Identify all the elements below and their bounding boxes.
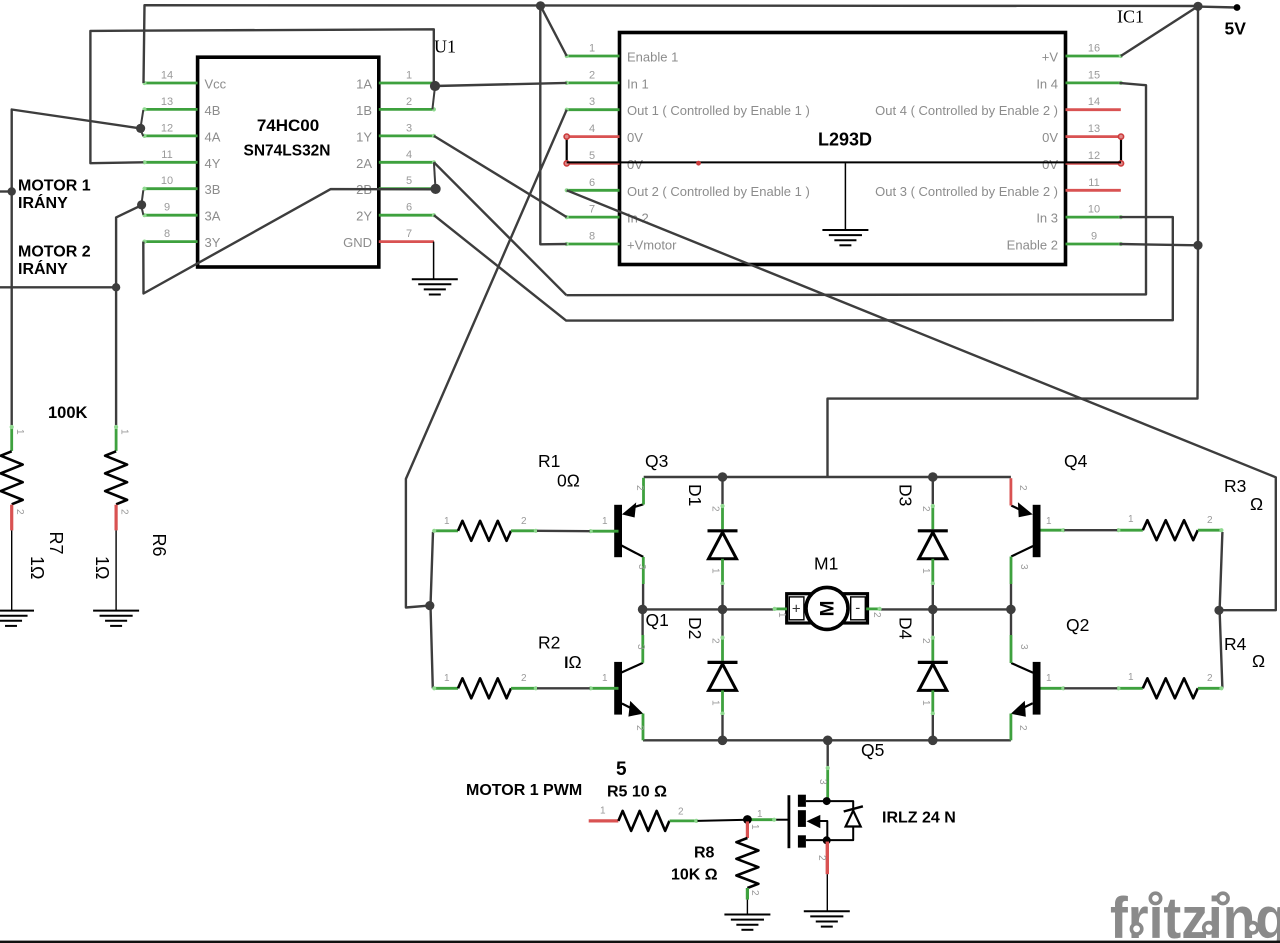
- svg-text:5: 5: [406, 175, 412, 187]
- node Q1/Q3 collector junction: [638, 605, 648, 615]
- wire In 4 run: [566, 83, 1146, 295]
- svg-text:9: 9: [164, 202, 170, 214]
- wire 4B to node: [141, 110, 144, 126]
- svg-text:1: 1: [757, 809, 763, 820]
- wire 2A to In 4 diagonal: [434, 162, 567, 295]
- IC1 pin 5 (0V): [567, 162, 620, 165]
- wire 3B to node: [142, 190, 144, 202]
- node R1/R2 junction: [425, 601, 434, 610]
- wire R5 to gate node: [698, 820, 749, 821]
- Q3 emitter lead: [642, 478, 645, 505]
- wire H-bridge left mid rail: [643, 608, 774, 610]
- Q5 drain lead: [826, 766, 829, 798]
- svg-text:14: 14: [161, 70, 173, 82]
- svg-text:4B: 4B: [205, 103, 221, 118]
- svg-text:Ω: Ω: [1252, 651, 1265, 671]
- svg-text:2: 2: [634, 725, 645, 731]
- wire Out 2 to H-bridge right bases: [567, 190, 1276, 610]
- ground R8: [724, 914, 770, 916]
- node MOTOR2 junction: [112, 283, 120, 291]
- svg-text:2: 2: [871, 612, 882, 618]
- Q5 gate wire: [775, 819, 788, 821]
- svg-text:11: 11: [161, 149, 172, 161]
- svg-text:In 4: In 4: [1036, 76, 1058, 91]
- svg-text:2: 2: [406, 96, 412, 108]
- svg-text:Out 3 ( Controlled by Enable 2: Out 3 ( Controlled by Enable 2 ): [875, 184, 1058, 199]
- svg-text:0V: 0V: [1042, 130, 1058, 145]
- svg-text:6: 6: [589, 177, 595, 189]
- IC1 pin 11 (Out 3 ( Controlled by Enable 2 )): [1066, 189, 1121, 192]
- M1 pin1 lead: [773, 608, 787, 611]
- wire Enable 2 to 5V drop: [1119, 244, 1198, 245]
- svg-text:0V: 0V: [1042, 157, 1058, 172]
- wire R1/R2 base tie: [431, 532, 434, 688]
- wire 1A to dot: [434, 83, 435, 86]
- svg-text:MOTOR 1: MOTOR 1: [18, 178, 91, 195]
- wire +Vmotor to 5V: [540, 6, 566, 245]
- svg-text:Ω: Ω: [569, 652, 582, 672]
- svg-text:4A: 4A: [205, 129, 221, 144]
- transistor Q4 (PNP): [1033, 505, 1041, 557]
- wire 1Y to In 2: [434, 136, 567, 217]
- svg-text:M1: M1: [814, 554, 838, 574]
- diode D3: [932, 477, 934, 505]
- svg-text:1: 1: [710, 568, 721, 574]
- svg-text:R3: R3: [1224, 476, 1246, 496]
- svg-text:1A: 1A: [356, 77, 372, 92]
- svg-text:GND: GND: [343, 235, 372, 250]
- R2 value: [565, 657, 567, 669]
- resistor R6: [115, 425, 118, 451]
- Q5 source lead red: [826, 842, 829, 875]
- svg-text:1: 1: [600, 806, 606, 817]
- svg-text:1Y: 1Y: [356, 129, 372, 144]
- node D2 mid junction: [718, 605, 728, 615]
- svg-text:0V: 0V: [627, 130, 643, 145]
- wire bottom rail to Q5 drain: [827, 740, 829, 766]
- svg-text:0Ω: 0Ω: [557, 471, 580, 491]
- wire R1 to Q3 base: [537, 530, 590, 533]
- node 5V endpoint: [1234, 4, 1241, 11]
- svg-text:Q1: Q1: [646, 610, 669, 630]
- svg-text:8: 8: [589, 231, 595, 243]
- Q1 emitter lead: [642, 714, 645, 741]
- svg-text:3: 3: [406, 122, 412, 134]
- svg-text:MOTOR 1 PWM: MOTOR 1 PWM: [466, 782, 582, 799]
- svg-text:M: M: [818, 600, 839, 616]
- svg-text:12: 12: [1088, 150, 1100, 162]
- wire Q2 base to R4: [1064, 687, 1117, 689]
- node 1A junction: [430, 81, 440, 91]
- wire 5V right drop to Enable2 and H-bridge supply: [828, 6, 1199, 477]
- svg-text:13: 13: [1088, 123, 1100, 135]
- svg-text:2: 2: [1017, 725, 1028, 731]
- wire 5V top rail (Vcc U1 to 5V node): [144, 5, 1199, 83]
- IC1 pin 9 (Enable 2): [1066, 243, 1121, 246]
- U1 pin 11 (4Y): [143, 161, 197, 164]
- ground U1 GND: [433, 242, 435, 279]
- IC1 pin 4 (0V): [567, 135, 620, 138]
- svg-text:5: 5: [616, 759, 627, 780]
- svg-text:IRLZ 24 N: IRLZ 24 N: [882, 810, 956, 827]
- Q1 collector lead: [641, 635, 644, 663]
- IC1 pin 10 (In 3): [1066, 216, 1121, 219]
- svg-text:2: 2: [521, 673, 527, 684]
- svg-text:10K Ω: 10K Ω: [671, 867, 718, 884]
- wire MOTOR 2 IRANY stub: [0, 286, 116, 288]
- svg-text:3: 3: [817, 779, 828, 785]
- svg-text:Out 1 ( Controlled by Enable 1: Out 1 ( Controlled by Enable 1 ): [627, 103, 810, 118]
- U1 pin 4 (2A): [379, 161, 434, 164]
- svg-text:1: 1: [119, 429, 130, 435]
- svg-text:1: 1: [14, 429, 25, 435]
- svg-text:IRÁNY: IRÁNY: [18, 193, 68, 212]
- diode D4: [932, 609, 934, 636]
- svg-text:15: 15: [1088, 69, 1100, 81]
- svg-text:1: 1: [444, 516, 450, 527]
- svg-text:R2: R2: [538, 633, 560, 653]
- wire 0V rail across IC1 (pin5 to pin12): [567, 161, 1121, 163]
- svg-text:IRÁNY: IRÁNY: [18, 259, 68, 278]
- svg-text:Out 2 ( Controlled by Enable 1: Out 2 ( Controlled by Enable 1 ): [627, 184, 810, 199]
- IC1 pin 7 (In 2): [567, 216, 620, 219]
- wire R2 to Q1 base: [537, 687, 590, 689]
- svg-text:2: 2: [589, 69, 595, 81]
- svg-text:L293D: L293D: [818, 130, 872, 150]
- svg-text:2: 2: [920, 506, 931, 512]
- Q5 gate lead: [748, 818, 775, 821]
- wire 2Y to In 3 diagonal and run: [434, 215, 1173, 320]
- wire R3/R4 base tie: [1220, 532, 1223, 688]
- U1 pin 5 (2B): [379, 187, 434, 190]
- resistor R5: [589, 819, 619, 822]
- Q4 emitter lead red: [1010, 478, 1013, 505]
- svg-text:Q2: Q2: [1066, 615, 1089, 635]
- wire H-bridge right mid rail: [881, 608, 1011, 610]
- resistor R2: [433, 687, 458, 690]
- resistor R7: [10, 425, 13, 451]
- IC1 pin 6 (Out 2 ( Controlled by Enable 1 )): [567, 189, 620, 192]
- svg-text:R7: R7: [46, 532, 66, 555]
- IC1 pin 12 (0V): [1066, 162, 1121, 165]
- svg-text:2: 2: [1207, 515, 1213, 526]
- Q3 collector lead: [642, 557, 645, 584]
- wire 1B to dot: [432, 87, 435, 110]
- wire 4A to node: [141, 131, 144, 137]
- svg-text:4: 4: [589, 123, 595, 135]
- node D2 bottom junction: [718, 736, 728, 746]
- svg-text:Out 4 ( Controlled by Enable 2: Out 4 ( Controlled by Enable 2 ): [875, 103, 1058, 118]
- wire 2A to 2B node: [434, 162, 436, 187]
- svg-text:2: 2: [521, 516, 527, 527]
- svg-text:In 3: In 3: [1036, 211, 1058, 226]
- ground below IC1: [844, 163, 846, 230]
- svg-text:2: 2: [920, 638, 931, 644]
- svg-text:1: 1: [749, 824, 760, 830]
- svg-text:1: 1: [1046, 673, 1052, 684]
- svg-text:MOTOR 2: MOTOR 2: [18, 244, 91, 261]
- node Enable2 junction: [1193, 241, 1202, 250]
- node R5/R8/gate junction: [743, 815, 752, 824]
- IC1 pin 8 (+Vmotor): [567, 243, 620, 246]
- svg-text:+V: +V: [1042, 50, 1059, 65]
- svg-text:Enable 2: Enable 2: [1007, 238, 1058, 253]
- U1 pin 3 (1Y): [379, 134, 434, 137]
- svg-text:3: 3: [1018, 564, 1029, 570]
- svg-text:2A: 2A: [356, 156, 372, 171]
- node 2B junction: [431, 184, 441, 194]
- svg-text:D2: D2: [685, 617, 705, 639]
- wire R7 to ground: [11, 530, 13, 610]
- svg-text:6: 6: [406, 202, 412, 214]
- IC U1 74HC00 body: [198, 57, 379, 267]
- IC1 pin 14 (Out 4 ( Controlled by Enable 2 )): [1066, 108, 1121, 111]
- svg-text:2: 2: [1207, 673, 1213, 684]
- svg-text:13: 13: [161, 96, 173, 108]
- svg-text:Q5: Q5: [861, 740, 884, 760]
- svg-text:2: 2: [119, 509, 130, 515]
- svg-text:2Y: 2Y: [356, 209, 372, 224]
- svg-text:D1: D1: [685, 484, 705, 506]
- svg-text:1: 1: [1128, 672, 1134, 683]
- resistor R3: [1117, 529, 1143, 532]
- wire 1A node to In 1: [435, 83, 567, 86]
- svg-text:1: 1: [710, 700, 721, 706]
- svg-text:1: 1: [776, 612, 787, 618]
- wire Out 1 to H-bridge left bases: [406, 110, 567, 608]
- resistor R4: [1117, 687, 1143, 690]
- svg-text:4Y: 4Y: [205, 156, 221, 171]
- U1 pin 2 (1B): [379, 108, 434, 111]
- U1 pin 8 (3Y): [143, 240, 197, 243]
- Q2 collector lead: [1010, 635, 1013, 663]
- wire R8 to ground: [746, 900, 748, 915]
- svg-text:1Ω: 1Ω: [92, 556, 112, 579]
- node R3/R4 junction: [1214, 606, 1223, 615]
- svg-text:10: 10: [1088, 204, 1100, 216]
- svg-text:16: 16: [1088, 43, 1100, 55]
- svg-text:10: 10: [161, 175, 173, 187]
- svg-text:In 1: In 1: [627, 76, 649, 91]
- svg-text:SN74LS32N: SN74LS32N: [243, 143, 330, 160]
- Q2 collector wire: [1010, 609, 1012, 635]
- wire MOTOR1 vertical to 4A/4B: [12, 110, 141, 426]
- svg-text:2: 2: [710, 638, 721, 644]
- svg-text:Q4: Q4: [1064, 451, 1088, 471]
- wire R6 to ground: [115, 530, 117, 610]
- svg-text:3: 3: [635, 644, 646, 650]
- IC1 pin 13 (0V): [1066, 135, 1121, 138]
- wire MOTOR 1 IRANY stub: [0, 190, 12, 192]
- diode D1: [721, 477, 723, 505]
- node 3A/3B junction: [137, 200, 146, 209]
- svg-text:100K: 100K: [48, 404, 88, 422]
- node 4A/4B junction: [136, 124, 145, 133]
- svg-text:2: 2: [1017, 485, 1028, 491]
- svg-text:1Ω: 1Ω: [27, 556, 47, 579]
- svg-text:2: 2: [816, 855, 827, 861]
- Q4 collector lead: [1010, 557, 1013, 585]
- node D4 mid junction: [928, 605, 938, 615]
- svg-text:2: 2: [710, 506, 721, 512]
- ground R7: [0, 610, 34, 612]
- transistor Q2 (NPN): [1033, 662, 1041, 715]
- IC1 pin 1 (Enable 1): [567, 55, 620, 58]
- node D4 bottom junction: [928, 736, 938, 746]
- Q4 collector wire: [1010, 584, 1012, 609]
- transistor Q1 (NPN): [614, 662, 622, 715]
- svg-text:+Vmotor: +Vmotor: [627, 238, 677, 253]
- svg-text:IC1: IC1: [1117, 7, 1144, 27]
- M1 pin2 lead: [866, 608, 881, 611]
- svg-text:2: 2: [678, 807, 684, 818]
- svg-text:3: 3: [1018, 644, 1029, 650]
- IC1 0V bracket left (pins 4-5): [566, 137, 568, 164]
- wire Enable1 to 5V: [541, 6, 567, 56]
- Q2 emitter lead: [1010, 714, 1013, 741]
- wire H-bridge bottom rail: [643, 739, 1011, 741]
- svg-text:Enable 1: Enable 1: [627, 50, 678, 65]
- svg-text:3A: 3A: [205, 209, 221, 224]
- wire Q4 base to R3: [1064, 529, 1117, 531]
- wire 5V stub: [1198, 5, 1237, 8]
- node D1 top junction: [718, 472, 728, 482]
- svg-text:1: 1: [1128, 514, 1134, 525]
- IC1 pin 3 (Out 1 ( Controlled by Enable 1 )): [567, 108, 620, 111]
- svg-text:14: 14: [1088, 96, 1100, 108]
- svg-text:U1: U1: [434, 37, 456, 57]
- IC IC1 L293D body: [620, 33, 1066, 265]
- svg-text:D3: D3: [895, 484, 915, 506]
- transistor Q3 (PNP): [614, 505, 622, 557]
- node Q2/Q4 collector junction: [1006, 605, 1016, 615]
- svg-text:5: 5: [589, 150, 595, 162]
- svg-text:8: 8: [164, 228, 170, 240]
- resistor R1: [433, 529, 458, 532]
- svg-text:+: +: [792, 601, 801, 618]
- U1 pin 9 (3A): [143, 214, 197, 217]
- MOSFET Q5 (IRLZ24N): [788, 795, 791, 848]
- node MOTOR1 junction: [8, 187, 16, 195]
- svg-text:1: 1: [444, 673, 450, 684]
- svg-text:Vcc: Vcc: [205, 77, 227, 92]
- svg-text:1: 1: [602, 516, 608, 527]
- wire 3Y to 2B node: [143, 189, 434, 293]
- svg-text:R6: R6: [149, 534, 169, 557]
- IC1 pin 2 (In 1): [567, 82, 620, 85]
- svg-text:74HC00: 74HC00: [257, 116, 319, 135]
- U1 pin 1 (1A): [379, 82, 434, 85]
- node 5V junction: [1193, 2, 1202, 11]
- svg-text:2: 2: [749, 890, 760, 896]
- svg-text:7: 7: [406, 228, 412, 240]
- U1 pin 7 (GND): [379, 240, 434, 243]
- wire MOTOR2 vertical to 3A/3B: [116, 205, 142, 425]
- U1 pin 14 (Vcc): [143, 82, 197, 85]
- svg-text:R5 10 Ω: R5 10 Ω: [607, 784, 667, 801]
- svg-text:12: 12: [161, 122, 173, 134]
- svg-text:R8: R8: [694, 845, 715, 862]
- Q1 collector wire: [641, 609, 643, 635]
- svg-text:Ω: Ω: [1250, 494, 1263, 514]
- svg-text:1: 1: [406, 70, 412, 82]
- wire +V to 5V: [1121, 6, 1198, 56]
- U1 pin 13 (4B): [143, 108, 197, 111]
- U1 pin 6 (2Y): [379, 214, 434, 217]
- svg-text:1B: 1B: [356, 103, 372, 118]
- U1 pin 12 (4A): [143, 134, 197, 137]
- svg-text:4: 4: [406, 149, 412, 161]
- svg-text:9: 9: [1091, 231, 1097, 243]
- node top junction at x=540: [536, 1, 545, 10]
- svg-text:3: 3: [589, 96, 595, 108]
- wire 4Y feedback rail: [90, 29, 433, 163]
- svg-text:R1: R1: [538, 451, 560, 471]
- IC1 pin 16 (+V): [1066, 55, 1121, 58]
- wire H-bridge top rail: [644, 476, 1011, 478]
- Q5 source to ground: [826, 874, 828, 911]
- svg-text:1: 1: [920, 568, 931, 574]
- svg-text:3Y: 3Y: [205, 235, 221, 250]
- node D3 top junction: [928, 472, 938, 482]
- bottom border line: [0, 941, 1280, 943]
- svg-text:5V: 5V: [1225, 19, 1247, 39]
- svg-text:1: 1: [602, 673, 608, 684]
- svg-text:R4: R4: [1224, 634, 1247, 654]
- svg-text:7: 7: [589, 204, 595, 216]
- ground Q5 source: [804, 910, 850, 912]
- svg-text:D4: D4: [895, 617, 915, 640]
- resistor R8: [746, 821, 749, 838]
- U1 pin 10 (3B): [143, 187, 197, 190]
- motor M1: [787, 594, 868, 623]
- svg-text:2: 2: [634, 485, 645, 491]
- svg-text:3B: 3B: [205, 182, 221, 197]
- svg-text:1: 1: [920, 700, 931, 706]
- svg-text:2: 2: [14, 509, 25, 515]
- node Q5 drain rail junction: [823, 736, 833, 746]
- svg-text:3: 3: [636, 564, 647, 570]
- IC1 0V bracket right (pins 13-12): [1120, 137, 1122, 164]
- Q3 collector wire: [642, 584, 644, 609]
- diode D2: [721, 609, 723, 636]
- IC1 pin 15 (In 4): [1066, 82, 1121, 85]
- svg-text:Q3: Q3: [645, 451, 668, 471]
- svg-text:1: 1: [1046, 516, 1052, 527]
- ground R6: [93, 610, 139, 612]
- svg-text:0V: 0V: [627, 157, 643, 172]
- svg-text:1: 1: [589, 43, 595, 55]
- svg-text:11: 11: [1088, 177, 1099, 189]
- svg-text:-: -: [855, 600, 860, 617]
- wire 3A to node: [142, 208, 144, 215]
